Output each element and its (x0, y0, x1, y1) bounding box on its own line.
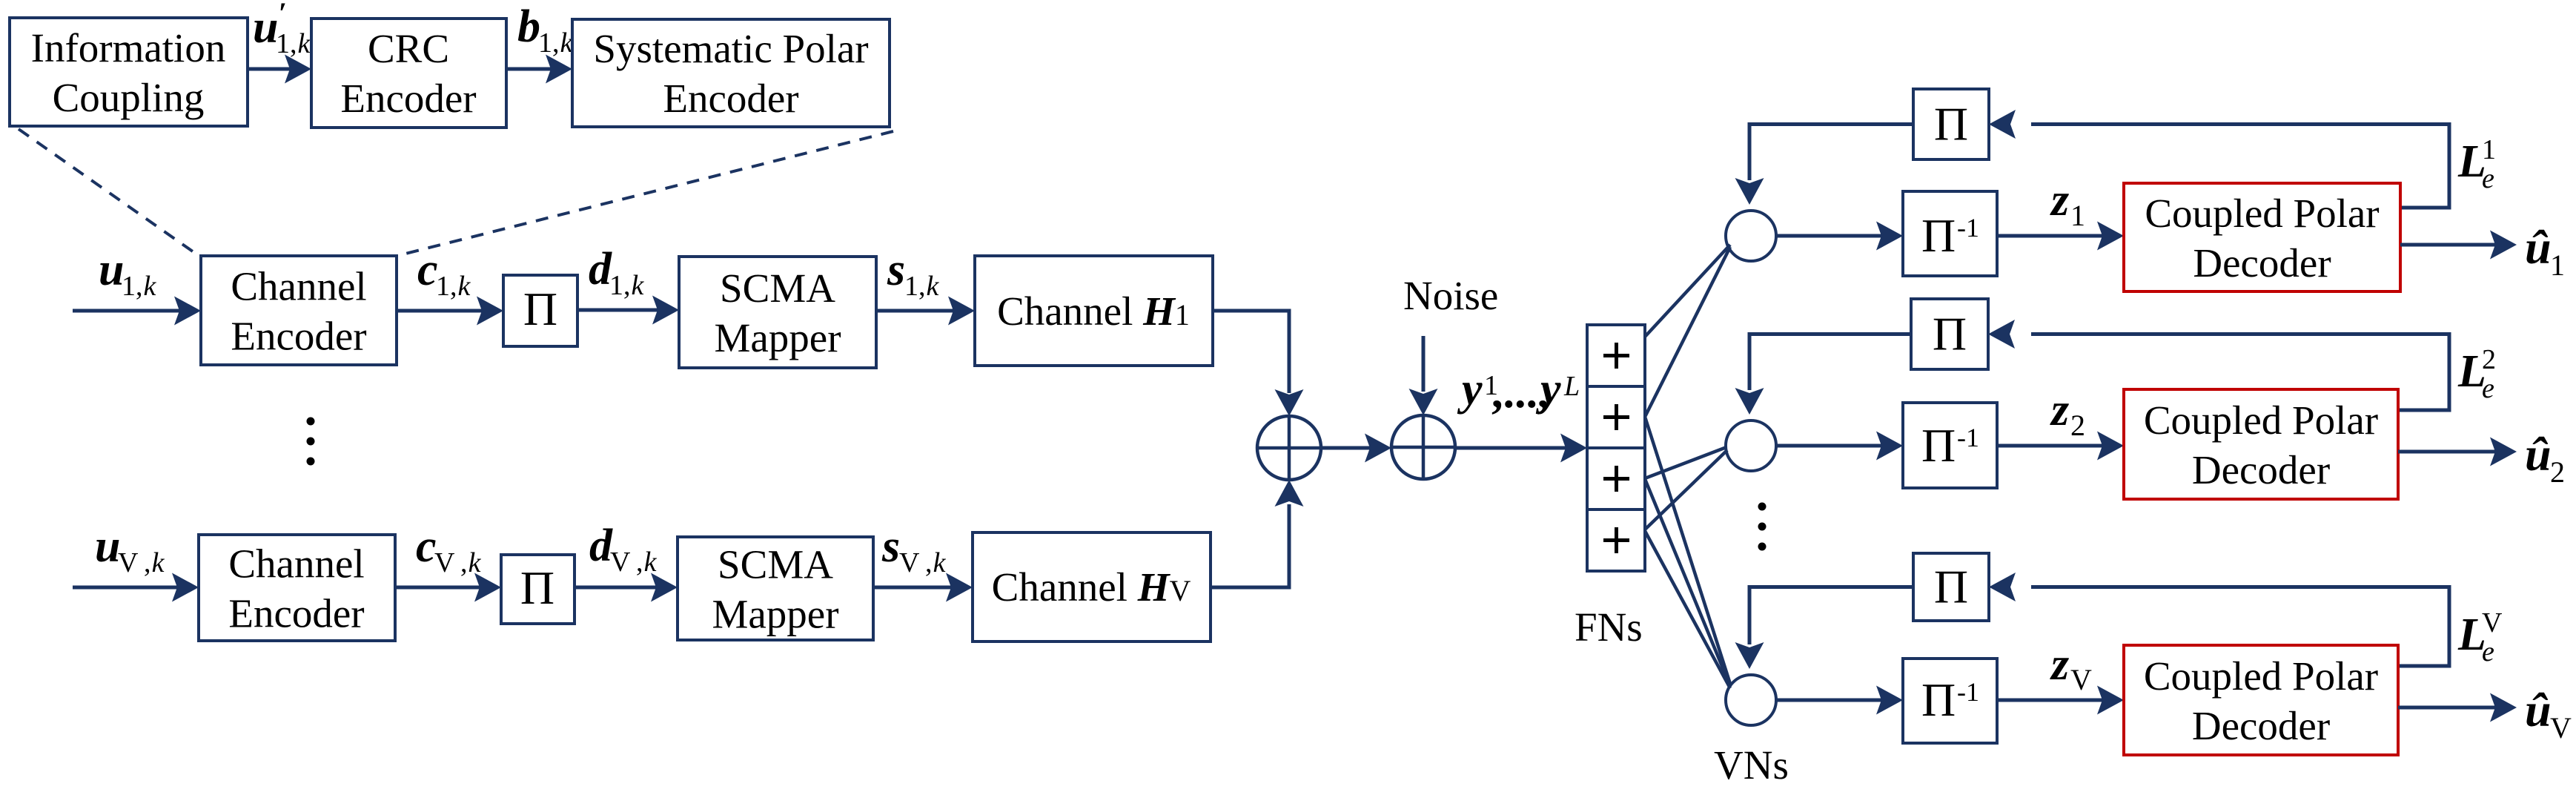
wire Le into P row 2 (2031, 332, 2449, 336)
label d1,k (589, 244, 645, 301)
svg-text:VNs: VNs (1714, 742, 1789, 788)
svg-text:û: û (2525, 221, 2552, 274)
FN box 2 (1587, 386, 1645, 448)
svg-text:-1: -1 (1957, 423, 1979, 452)
svg-text:Channel: Channel (228, 541, 364, 587)
inverse interleaver box row 1 (1903, 191, 1997, 276)
arrowhead into decoder row 3 (2097, 686, 2124, 715)
arrowhead into inverse interleaver row 2 (1876, 432, 1903, 461)
svg-text:e: e (2482, 373, 2494, 404)
block Channel H1 (975, 256, 1213, 366)
svg-text:2: 2 (2482, 344, 2496, 375)
wire Le into P row 3 (2031, 585, 2449, 589)
svg-text:Π: Π (520, 561, 554, 614)
svg-text:Decoder: Decoder (2192, 447, 2330, 492)
label Le row 3 (2457, 607, 2503, 667)
vertical ellipsis between VN 2 and VN V (1758, 503, 1767, 551)
wire SCMA Mapper V to Channel HV (873, 586, 952, 590)
VN circle 2 (1726, 420, 1776, 471)
wire Le vertical row 2 (2398, 332, 2451, 412)
arrowhead into interleaver 1 (477, 297, 503, 326)
VN circle 3 (1726, 675, 1776, 725)
svg-text:Mapper: Mapper (714, 315, 841, 360)
svg-text:Coupled Polar: Coupled Polar (2145, 191, 2379, 236)
svg-text:SCMA: SCMA (718, 542, 833, 587)
svg-text:1: 1 (2070, 199, 2085, 232)
svg-text:Decoder: Decoder (2193, 240, 2331, 286)
label z row 3 (2050, 639, 2092, 696)
label u'1,k (253, 0, 311, 59)
svg-text:Π: Π (1921, 209, 1956, 262)
arrowhead into FNs (1560, 434, 1587, 463)
svg-text:Encoder: Encoder (228, 591, 364, 636)
edge VNV-FN4 (1645, 531, 1730, 688)
arrowhead output row 2 (2490, 438, 2517, 466)
svg-text:Systematic Polar: Systematic Polar (593, 26, 868, 71)
arrowhead output row 3 (2490, 693, 2517, 722)
svg-text:b: b (517, 1, 540, 52)
label u-hat row 2 (2525, 428, 2565, 489)
svg-text:Mapper: Mapper (712, 592, 838, 637)
label u-hat row 3 (2525, 684, 2572, 745)
svg-text:V ,k: V ,k (118, 547, 165, 578)
svg-text:V ,k: V ,k (434, 547, 482, 578)
arrowhead into SCMA Mapper V (651, 573, 678, 602)
edge VN1-FN2 (1645, 247, 1730, 417)
arrowhead into Channel Encoder V (172, 573, 199, 602)
wire SCMA Mapper 1 to Channel H1 (876, 309, 954, 313)
wire adder 2 to FNs (1455, 446, 1566, 450)
adder circle 1 (1257, 416, 1321, 480)
svg-text:Coupling: Coupling (53, 75, 205, 120)
svg-text:V: V (2550, 711, 2572, 745)
block Systematic Polar Encoder (572, 19, 890, 127)
svg-text:1,k: 1,k (538, 27, 574, 59)
svg-text:2: 2 (2070, 409, 2085, 442)
svg-text:1,k: 1,k (609, 270, 645, 301)
arrowhead into Channel H1 (948, 297, 975, 326)
arrowhead into adder 2 (1365, 434, 1391, 463)
svg-text:c: c (416, 521, 437, 572)
wire Le into P row 1 (2031, 122, 2449, 126)
interleaver P feedback box row 1 (1913, 89, 1989, 159)
interleaver P feedback box row 3 (1913, 553, 1989, 621)
svg-text:Noise: Noise (1403, 273, 1498, 318)
arrowhead into adder top (1275, 389, 1304, 416)
Coupled Polar Decoder box row 3 (2124, 645, 2398, 755)
wire interleaver V to SCMA Mapper V (575, 586, 656, 590)
label VNs (1714, 742, 1789, 788)
svg-text:SCMA: SCMA (720, 265, 835, 311)
label z row 1 (2050, 175, 2085, 232)
adder circle 2 (1391, 415, 1455, 479)
block SCMA Mapper V (678, 537, 873, 640)
svg-text:′: ′ (279, 0, 287, 30)
label Le row 2 (2457, 344, 2496, 404)
wire VN to inverse interleaver row 2 (1776, 444, 1883, 448)
label Noise (1403, 273, 1498, 318)
wire input u1,k (73, 309, 179, 313)
wire feedback P to VN row 2 (1748, 332, 1912, 390)
svg-text:Information: Information (31, 25, 226, 70)
wire Le vertical row 3 (2398, 585, 2451, 668)
svg-text:V: V (2482, 607, 2503, 639)
svg-text:Channel H1: Channel H1 (997, 288, 1190, 334)
svg-text:u: u (99, 245, 124, 295)
wire VN to inverse interleaver row 3 (1776, 699, 1883, 702)
svg-text:c: c (417, 245, 438, 295)
FN box 3 (1587, 448, 1645, 509)
svg-text:Π: Π (1921, 673, 1956, 726)
block SCMA Mapper 1 (679, 257, 876, 368)
svg-text:V: V (2070, 663, 2092, 696)
block CRC Encoder (311, 19, 506, 128)
svg-text:FNs: FNs (1575, 604, 1643, 650)
wire decoder output row 1 (2400, 243, 2495, 247)
label z row 2 (2050, 385, 2085, 442)
svg-text:CRC: CRC (368, 26, 449, 71)
svg-text:Channel: Channel (231, 264, 366, 309)
label cV,k (416, 521, 482, 578)
label u1,k (99, 245, 157, 302)
arrowhead into Channel Encoder 1 (174, 297, 201, 326)
FN box 4 (1587, 509, 1645, 571)
svg-text:û: û (2525, 684, 2552, 736)
svg-text:Coupled Polar: Coupled Polar (2144, 397, 2378, 443)
label b1,k (517, 1, 574, 59)
wire inverse interleaver to decoder row 3 (1997, 699, 2104, 702)
svg-text:1,k: 1,k (904, 271, 940, 302)
inverse interleaver box row 3 (1903, 659, 1997, 743)
block Information Coupling (10, 18, 248, 126)
wire decoder output row 2 (2398, 450, 2495, 454)
svg-text:1,k: 1,k (436, 271, 471, 302)
edge VNV-FN3 (1645, 479, 1730, 686)
svg-text:Π: Π (1934, 98, 1968, 151)
arrowhead feedback into VN row 3 (1735, 642, 1764, 669)
svg-text:e: e (2482, 636, 2494, 667)
svg-text:e: e (2482, 163, 2494, 194)
svg-text:Π: Π (1934, 561, 1968, 613)
svg-text:z: z (2050, 385, 2069, 435)
svg-text:1: 1 (2550, 248, 2565, 282)
interleaver PV (501, 555, 575, 624)
edge VNV-FN2 (1645, 417, 1730, 684)
arrowhead into SCMA Mapper 1 (652, 296, 679, 325)
label dV,k (589, 521, 658, 578)
label y1,...,yL (1457, 364, 1580, 418)
arrowhead feedback into VN row 2 (1735, 388, 1764, 415)
svg-text:s: s (881, 521, 900, 572)
wire Information Coupling to CRC Encoder (248, 67, 291, 71)
block Channel Encoder V (199, 535, 395, 641)
wire Le vertical row 1 (2400, 122, 2451, 210)
arrowhead into inverse interleaver row 1 (1876, 222, 1903, 251)
VN circle 1 (1726, 211, 1776, 261)
interleaver P feedback box row 2 (1911, 299, 1988, 369)
inverse interleaver box row 2 (1903, 403, 1997, 488)
block Channel Encoder 1 (201, 256, 397, 365)
label u-hat row 1 (2525, 221, 2565, 282)
dashed line Systematic Polar Encoder to Channel Encoder (397, 131, 893, 256)
interleaver P1 (503, 275, 577, 346)
arrowhead noise into adder 2 (1409, 389, 1438, 415)
svg-text:Encoder: Encoder (231, 314, 366, 359)
wire VN to inverse interleaver row 1 (1776, 234, 1883, 238)
label uV,k (95, 521, 165, 578)
wire inverse interleaver to decoder row 2 (1997, 444, 2104, 448)
label FNs (1575, 604, 1643, 650)
svg-text:1: 1 (2482, 134, 2496, 165)
svg-text:y: y (1457, 364, 1483, 415)
svg-text:s: s (887, 245, 905, 295)
svg-text:z: z (2050, 175, 2069, 225)
wire decoder output row 3 (2398, 706, 2495, 710)
svg-text:-1: -1 (1957, 213, 1979, 243)
svg-text:Encoder: Encoder (340, 76, 476, 121)
Coupled Polar Decoder box row 1 (2124, 183, 2400, 291)
svg-text:Π: Π (1921, 419, 1956, 472)
FN box 1 (1587, 325, 1645, 386)
arrowhead into P row 2 (1988, 320, 2015, 349)
wire feedback P to VN row 1 (1748, 122, 1914, 180)
svg-text:Encoder: Encoder (663, 76, 798, 121)
svg-text:Decoder: Decoder (2192, 703, 2330, 748)
svg-text:u: u (95, 521, 120, 572)
edge VN2-FN3 (1645, 447, 1726, 478)
wire adder 1 to adder 2 (1321, 446, 1370, 450)
wire Channel HV to adder (1211, 504, 1291, 590)
svg-text:1,k: 1,k (122, 271, 157, 302)
arrowhead into decoder row 2 (2097, 432, 2124, 461)
svg-text:Π: Π (523, 283, 557, 335)
svg-text:L: L (1563, 371, 1580, 402)
edge VN1-FN1 (1645, 245, 1730, 337)
svg-text:V ,k: V ,k (610, 547, 658, 578)
arrowhead into P row 1 (1989, 110, 2016, 139)
wire Channel H1 to adder (1213, 309, 1291, 394)
svg-text:1,k: 1,k (276, 28, 311, 59)
wire noise into adder 2 (1422, 336, 1426, 392)
arrowhead into Systematic Polar Encoder (546, 55, 572, 84)
arrowhead into CRC Encoder (285, 55, 311, 84)
svg-text:-1: -1 (1957, 677, 1979, 707)
block Channel HV (973, 532, 1211, 641)
svg-text:Channel HV: Channel HV (992, 564, 1191, 610)
Coupled Polar Decoder box row 2 (2124, 389, 2398, 499)
vertical ellipsis between user chains (307, 418, 315, 466)
arrowhead into adder bottom (1275, 480, 1304, 507)
arrowhead into P row 3 (1989, 573, 2016, 601)
svg-text:2: 2 (2550, 455, 2565, 489)
label c1,k (417, 245, 471, 302)
label s1,k (887, 245, 940, 302)
wire Channel Encoder 1 to interleaver 1 (397, 309, 482, 313)
arrowhead into interleaver V (474, 573, 501, 602)
label Le row 1 (2457, 134, 2496, 194)
arrowhead into decoder row 1 (2097, 222, 2124, 251)
arrowhead into inverse interleaver row 3 (1876, 686, 1903, 715)
wire inverse interleaver to decoder row 1 (1997, 234, 2104, 238)
arrowhead into Channel HV (946, 573, 973, 602)
wire interleaver 1 to SCMA Mapper 1 (577, 309, 658, 312)
svg-text:z: z (2050, 639, 2069, 690)
dashed line Information Coupling to Channel Encoder (19, 129, 198, 255)
wire CRC Encoder to Systematic Polar Encoder (506, 67, 552, 71)
wire feedback P to VN row 3 (1748, 585, 1914, 644)
svg-text:V ,k: V ,k (899, 547, 947, 578)
wire Channel Encoder V to interleaver V (395, 586, 480, 590)
edge VN2-FN4 (1645, 450, 1727, 530)
arrowhead output row 1 (2490, 231, 2517, 260)
wire input uV,k (73, 586, 177, 590)
svg-text:û: û (2525, 428, 2552, 481)
svg-text:u: u (253, 2, 278, 53)
svg-text:Coupled Polar: Coupled Polar (2144, 653, 2378, 699)
svg-text:Π: Π (1933, 308, 1967, 360)
label sV,k (881, 521, 947, 578)
arrowhead feedback into VN row 1 (1735, 178, 1764, 205)
